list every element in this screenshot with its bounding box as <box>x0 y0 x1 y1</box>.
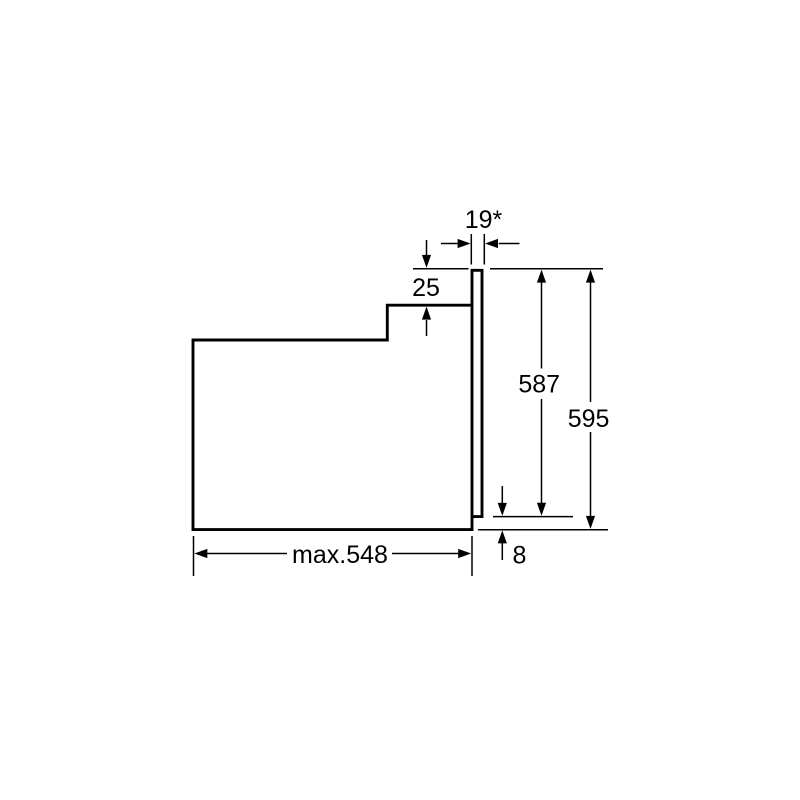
svg-text:587: 587 <box>518 371 560 399</box>
dimension 587 line lower <box>541 399 543 504</box>
extension line bottom right vertical <box>471 536 473 576</box>
extension line door bottom level <box>493 516 573 518</box>
dimension 25 upper arrow <box>426 240 428 256</box>
svg-text:8: 8 <box>513 542 527 570</box>
dimension max.548 line left <box>207 553 288 555</box>
dimension 8 lower arrow <box>501 543 503 560</box>
svg-text:19*: 19* <box>465 206 503 234</box>
front panel (door frame) <box>472 270 482 531</box>
extension line body bottom level <box>478 529 608 531</box>
dimension 587 line upper <box>541 282 543 369</box>
extension line top (panel top level) left segment <box>413 268 469 270</box>
svg-text:595: 595 <box>568 405 610 433</box>
extension line top (panel top level) right segment <box>490 268 603 270</box>
extension line 19 right vertical <box>483 234 485 265</box>
dimension 8 upper arrow <box>501 486 503 504</box>
extension line 19 left vertical <box>470 234 472 265</box>
dimension 25 lower arrow <box>426 320 428 336</box>
svg-text:25: 25 <box>412 274 440 302</box>
dimension 595 line upper <box>590 282 592 403</box>
svg-text:max.548: max.548 <box>292 541 388 569</box>
dimension max.548 line right <box>392 553 459 555</box>
dimension 19* right arrow <box>499 243 520 245</box>
extension line bottom left vertical <box>193 536 195 576</box>
oven carcass outline <box>193 305 473 529</box>
dimension 19* left arrow <box>441 243 458 245</box>
dimension 595 line lower <box>590 432 592 517</box>
